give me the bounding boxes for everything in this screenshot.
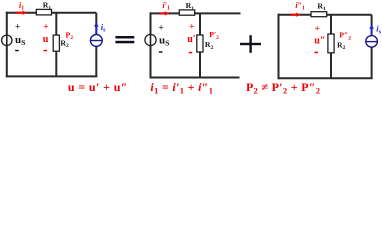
svg-text:i1: i1 bbox=[19, 1, 24, 12]
svg-text:i′1: i′1 bbox=[163, 1, 170, 12]
svg-text:u = u′ + u″: u = u′ + u″ bbox=[68, 80, 128, 94]
svg-text:P2: P2 bbox=[66, 30, 74, 41]
svg-text:+: + bbox=[189, 23, 194, 33]
svg-text:u: u bbox=[43, 34, 49, 45]
svg-text:+: + bbox=[315, 25, 320, 35]
svg-text:R2: R2 bbox=[205, 40, 214, 51]
svg-text:is: is bbox=[101, 22, 106, 34]
svg-text:uS: uS bbox=[15, 34, 25, 47]
svg-text:+: + bbox=[15, 23, 20, 33]
svg-text:uS: uS bbox=[159, 35, 169, 48]
svg-text:i″1: i″1 bbox=[295, 1, 305, 12]
svg-text:P′2: P′2 bbox=[209, 30, 219, 41]
svg-text:+: + bbox=[158, 24, 163, 34]
svg-text:is: is bbox=[376, 24, 381, 36]
svg-text:P2 ≠ P′2 + P″2: P2 ≠ P′2 + P″2 bbox=[246, 80, 320, 96]
svg-text:R2: R2 bbox=[60, 38, 69, 49]
svg-text:R1: R1 bbox=[317, 1, 326, 12]
svg-text:i1 = i′1 + i″1: i1 = i′1 + i″1 bbox=[150, 80, 213, 96]
svg-text:u′: u′ bbox=[187, 34, 196, 45]
svg-text:u″: u″ bbox=[314, 36, 325, 47]
svg-text:R2: R2 bbox=[337, 40, 346, 51]
svg-text:+: + bbox=[43, 22, 48, 32]
